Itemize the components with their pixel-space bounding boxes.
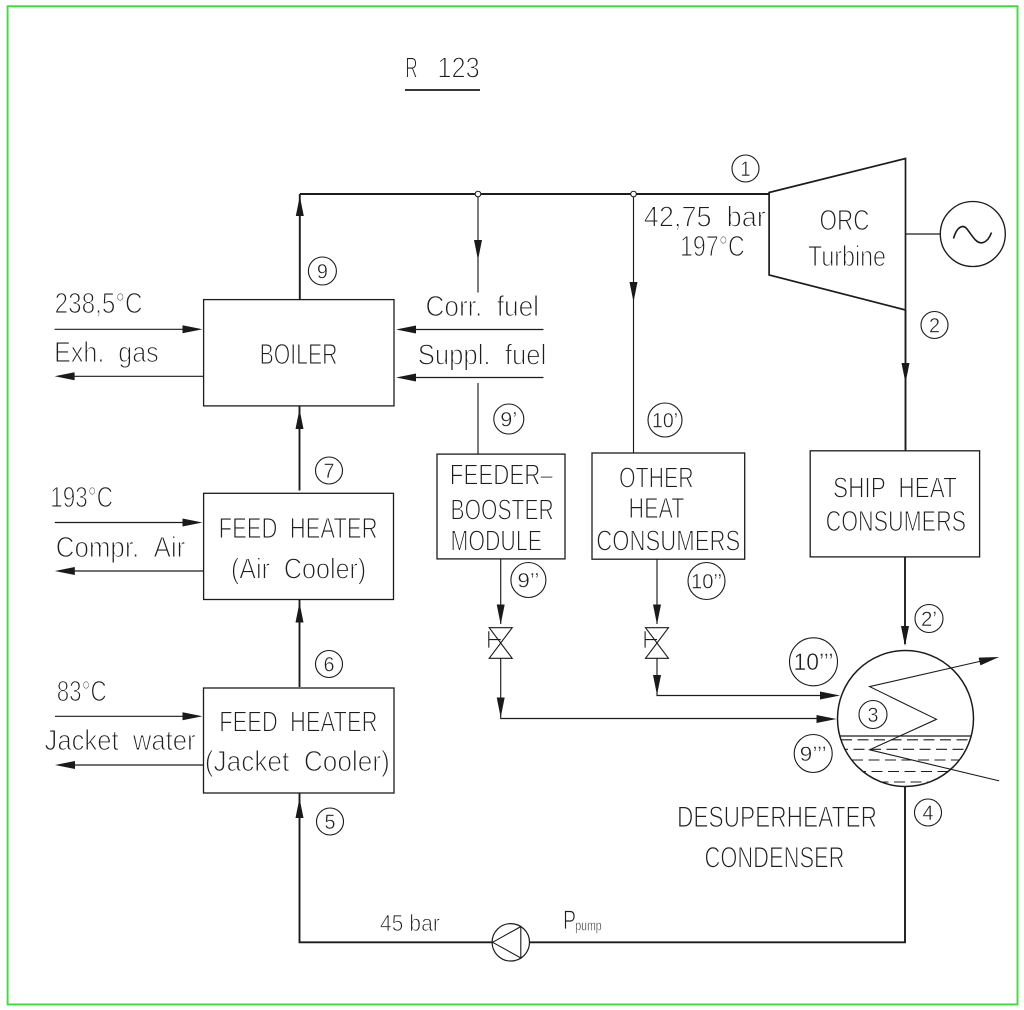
junction node on manifold at 9-prime bbox=[475, 191, 481, 197]
node 7 bbox=[316, 457, 343, 484]
arrow down turbine outlet bbox=[902, 363, 910, 383]
arrow up air cooler to boiler bbox=[296, 409, 304, 429]
generator G1 bbox=[940, 202, 1005, 267]
node 10-3prime bbox=[790, 638, 838, 686]
arrow down ship line into condenser bbox=[901, 626, 909, 646]
title underline bbox=[405, 89, 480, 91]
pump P1 bbox=[492, 924, 529, 961]
svg-text:83°C: 83°C bbox=[57, 676, 107, 708]
wire jacket water out bbox=[72, 764, 204, 766]
feed heater air cooler box bbox=[204, 493, 394, 599]
svg-text:BOOSTER: BOOSTER bbox=[451, 495, 554, 527]
svg-text:Compr. Air: Compr. Air bbox=[56, 532, 186, 564]
svg-text:CONDENSER: CONDENSER bbox=[705, 842, 845, 875]
svg-text:(Air Cooler): (Air Cooler) bbox=[231, 554, 366, 586]
svg-text:4: 4 bbox=[923, 802, 934, 825]
wire top manifold bbox=[300, 193, 769, 195]
arrow right into boiler exh bbox=[183, 325, 203, 333]
node 2 bbox=[921, 312, 948, 339]
svg-text:FEEDER–: FEEDER– bbox=[450, 460, 554, 492]
other heat consumers box bbox=[592, 453, 745, 559]
svg-text:SHIP HEAT: SHIP HEAT bbox=[833, 473, 957, 505]
ship heat consumers box bbox=[810, 451, 979, 557]
svg-text:FEED HEATER: FEED HEATER bbox=[219, 513, 378, 545]
svg-text:BOILER: BOILER bbox=[260, 339, 338, 371]
node 5 bbox=[317, 808, 344, 835]
arrow up pump line into jacket cooler bbox=[296, 798, 304, 818]
svg-text:Exh. gas: Exh. gas bbox=[54, 337, 159, 369]
arrow right 10-3prime into condenser bbox=[820, 692, 840, 700]
arrow left corr fuel bbox=[396, 326, 416, 334]
svg-text:9: 9 bbox=[317, 261, 328, 284]
wire other consumers down to valve bbox=[656, 559, 658, 624]
svg-text:238,5°C: 238,5°C bbox=[55, 288, 143, 320]
arrow down feeder branch above valve bbox=[497, 605, 505, 625]
wire suppl fuel bbox=[412, 377, 544, 379]
wire other valve to condenser bbox=[657, 658, 823, 695]
valve V1 below feeder module bbox=[489, 628, 512, 659]
wire feeder valve to condenser bbox=[501, 658, 820, 718]
arrow up jacket to air cooler bbox=[296, 603, 304, 623]
wire turbine outlet to ship box bbox=[905, 310, 907, 451]
node 10-prime bbox=[648, 403, 682, 437]
svg-text:OTHER: OTHER bbox=[619, 462, 694, 494]
svg-text:ORC: ORC bbox=[820, 205, 870, 237]
arrow left compr air out bbox=[55, 567, 75, 575]
node 3 bbox=[859, 701, 887, 729]
arrow down feeder branch corner bbox=[497, 698, 505, 718]
svg-text:123: 123 bbox=[437, 53, 479, 85]
junction node on manifold at 10-prime bbox=[631, 191, 637, 197]
node 4 bbox=[915, 799, 942, 826]
condenser heating coil zigzag bbox=[870, 661, 1000, 781]
feed heater jacket cooler box bbox=[204, 688, 395, 793]
boiler box bbox=[204, 300, 394, 406]
wire exhaust gas in bbox=[55, 328, 186, 330]
node 9-3prime bbox=[794, 735, 832, 773]
svg-text:CONSUMERS: CONSUMERS bbox=[596, 525, 740, 557]
svg-text:10’’: 10’’ bbox=[691, 571, 722, 594]
svg-text:FEED HEATER: FEED HEATER bbox=[219, 706, 377, 738]
wire boiler to manifold bbox=[299, 194, 301, 300]
svg-text:10’: 10’ bbox=[652, 410, 678, 433]
wire air cooler to boiler bbox=[299, 406, 301, 491]
svg-text:Corr. fuel: Corr. fuel bbox=[426, 291, 540, 323]
svg-text:HEAT: HEAT bbox=[629, 493, 685, 525]
svg-text:7: 7 bbox=[324, 460, 335, 483]
wire feeder module down to valve bbox=[500, 559, 502, 624]
svg-text:3: 3 bbox=[868, 704, 879, 727]
wire jacket cooler to air cooler bbox=[299, 600, 301, 688]
wire corr fuel bbox=[412, 329, 544, 331]
svg-text:5: 5 bbox=[325, 811, 336, 834]
node 10-2prime bbox=[688, 563, 725, 600]
condenser liquid dashes bbox=[841, 740, 970, 782]
wire generator connector bbox=[906, 233, 941, 235]
valve V2 below other heat consumers bbox=[645, 628, 668, 659]
node 9 bbox=[308, 257, 336, 285]
svg-text:(Jacket Cooler): (Jacket Cooler) bbox=[205, 746, 390, 778]
wire 9-prime branch upper bbox=[477, 194, 479, 293]
svg-text:197°C: 197°C bbox=[680, 231, 745, 263]
condenser liquid level line bbox=[840, 735, 971, 737]
svg-text:42,75 bar: 42,75 bar bbox=[644, 202, 766, 234]
arrow down on 9-prime branch bbox=[474, 240, 482, 260]
svg-text:9’’: 9’’ bbox=[517, 570, 539, 593]
svg-text:R: R bbox=[405, 53, 417, 85]
wire 9-prime branch lower bbox=[477, 383, 479, 454]
arrow down other branch above valve bbox=[653, 605, 661, 625]
wire exhaust gas out bbox=[72, 375, 204, 377]
wire pump line to jacket cooler bbox=[300, 793, 493, 942]
svg-text:10’’’: 10’’’ bbox=[794, 649, 834, 676]
svg-text:DESUPERHEATER: DESUPERHEATER bbox=[677, 801, 877, 834]
arrow down other branch corner bbox=[653, 675, 661, 695]
svg-text:Jacket water: Jacket water bbox=[45, 725, 196, 757]
wire 10-prime branch bbox=[633, 194, 635, 453]
desuperheater condenser C1 bbox=[838, 651, 1000, 787]
node 9-2prime bbox=[511, 563, 546, 598]
svg-text:2: 2 bbox=[929, 315, 940, 338]
arrow left jacket water out bbox=[55, 761, 75, 769]
svg-text:P: P bbox=[563, 905, 576, 935]
svg-text:45 bar: 45 bar bbox=[380, 910, 440, 936]
wire jacket water in bbox=[55, 715, 186, 717]
arrow right into air cooler bbox=[183, 519, 203, 527]
node 9-prime bbox=[494, 404, 524, 434]
svg-text:Turbine: Turbine bbox=[808, 241, 886, 273]
wire condenser to pump bbox=[529, 787, 905, 943]
svg-text:9’: 9’ bbox=[500, 409, 517, 432]
feeder-booster module box bbox=[437, 454, 565, 559]
svg-text:6: 6 bbox=[324, 654, 335, 677]
arrow left suppl fuel bbox=[396, 374, 416, 382]
turbine T1 bbox=[769, 159, 905, 311]
svg-text:Suppl. fuel: Suppl. fuel bbox=[418, 339, 547, 371]
svg-text:MODULE: MODULE bbox=[451, 526, 543, 558]
arrow down on 10-prime branch bbox=[630, 282, 638, 302]
node 2-prime bbox=[915, 605, 943, 633]
svg-text:2’: 2’ bbox=[921, 608, 937, 631]
svg-text:pump: pump bbox=[575, 918, 602, 935]
arrow coil outlet bbox=[979, 657, 999, 665]
svg-text:193°C: 193°C bbox=[50, 482, 113, 514]
wire compr air out bbox=[72, 570, 204, 572]
arrow right 9-3prime into condenser bbox=[817, 715, 837, 723]
arrow up into manifold bbox=[296, 196, 304, 216]
arrow left exh out bbox=[55, 372, 75, 380]
svg-text:CONSUMERS: CONSUMERS bbox=[826, 506, 967, 538]
node 6 bbox=[316, 651, 343, 678]
arrow right into jacket cooler bbox=[183, 712, 203, 720]
svg-text:1: 1 bbox=[741, 158, 751, 181]
node 1 bbox=[732, 155, 759, 182]
svg-text:9’’’: 9’’’ bbox=[800, 743, 827, 766]
wire ship box to condenser bbox=[904, 557, 906, 644]
wire compr air in bbox=[55, 522, 186, 524]
